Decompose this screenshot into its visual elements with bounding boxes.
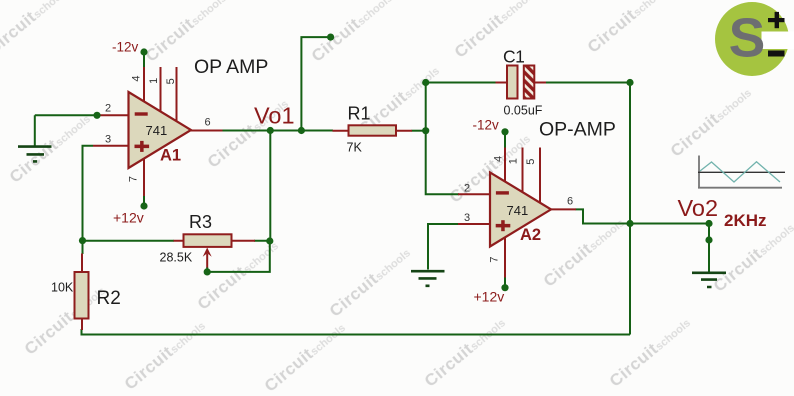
svg-text:A1: A1 <box>160 147 181 165</box>
svg-text:+12v: +12v <box>474 289 505 305</box>
svg-text:5: 5 <box>525 159 537 165</box>
svg-text:R1: R1 <box>348 103 371 123</box>
svg-text:7K: 7K <box>347 141 363 155</box>
svg-text:R3: R3 <box>189 212 212 232</box>
svg-text:Vo2: Vo2 <box>678 195 719 221</box>
svg-text:0.05uF: 0.05uF <box>504 104 543 118</box>
svg-text:4: 4 <box>131 76 143 82</box>
svg-text:1: 1 <box>507 158 519 164</box>
svg-text:10K: 10K <box>51 281 74 295</box>
svg-text:741: 741 <box>507 203 529 218</box>
svg-text:Vo1: Vo1 <box>254 103 295 129</box>
svg-text:R2: R2 <box>97 288 121 309</box>
svg-text:6: 6 <box>205 117 211 129</box>
svg-text:OP AMP: OP AMP <box>194 56 268 78</box>
svg-text:5: 5 <box>165 78 177 84</box>
svg-text:4: 4 <box>493 156 505 162</box>
svg-text:741: 741 <box>146 123 168 138</box>
svg-text:2KHz: 2KHz <box>724 211 767 230</box>
svg-text:28.5K: 28.5K <box>160 251 193 265</box>
svg-text:C1: C1 <box>503 47 524 67</box>
svg-text:6: 6 <box>567 196 573 208</box>
svg-text:A2: A2 <box>520 226 541 244</box>
svg-text:3: 3 <box>105 134 111 146</box>
svg-text:-12v: -12v <box>473 118 500 133</box>
svg-text:3: 3 <box>464 212 470 224</box>
svg-text:2: 2 <box>464 183 470 195</box>
svg-text:7: 7 <box>489 256 501 262</box>
svg-text:OP-AMP: OP-AMP <box>539 119 616 141</box>
svg-text:+12v: +12v <box>113 210 144 226</box>
svg-text:-12v: -12v <box>112 40 139 55</box>
svg-text:S: S <box>729 7 766 69</box>
svg-text:2: 2 <box>105 103 111 115</box>
svg-text:7: 7 <box>127 176 139 182</box>
svg-text:1: 1 <box>148 78 160 84</box>
